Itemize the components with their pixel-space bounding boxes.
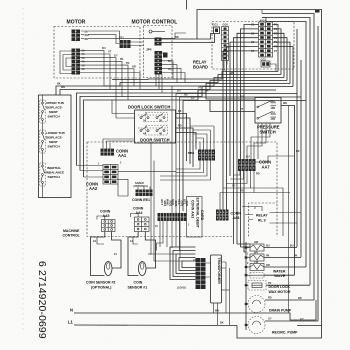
- wire pressure feed lower: [210, 100, 255, 112]
- wire right riser 4: [296, 29, 298, 247]
- wire AA4 top stub: [131, 214, 139, 218]
- wire long vertical to nest: [171, 86, 173, 248]
- lower tub displacement switch symbol: [40, 130, 46, 153]
- connector TB1 (motor control aux): [119, 37, 131, 49]
- coin sensor 1 coin slot symbol: [138, 262, 146, 276]
- wire AA14 left elbow 3: [237, 33, 259, 244]
- wire loads feed elbows: [237, 244, 250, 252]
- connector CONN AA3 pin labels: [160, 199, 189, 207]
- wire pressure out right: [281, 106, 295, 276]
- wire door box right 1: [176, 114, 187, 162]
- wire EE1 stubs up: [138, 187, 150, 190]
- wire pressure bottom drop 1: [247, 123, 262, 159]
- wire RL9 left stubs: [245, 215, 253, 220]
- wire transformer connections: [206, 262, 227, 277]
- wire motor drop 7: [80, 73, 140, 90]
- connector CONN AA7: [238, 159, 256, 171]
- wire JP4 drop 4: [167, 73, 185, 83]
- wire door box left 2: [116, 93, 135, 118]
- wire bus line F: [80, 87, 293, 171]
- wire door box left 1: [112, 100, 135, 114]
- wire right riser 1: [262, 14, 314, 301]
- connector M1 (motor 3-pin): [72, 30, 81, 42]
- connector JP2 (2-pin): [155, 38, 162, 46]
- wire BB0 bottom fan: [160, 161, 211, 181]
- wire AA14 left elbow 5: [230, 42, 259, 176]
- wire AA14 right elbow 2: [273, 29, 282, 75]
- wire bus line E: [77, 84, 291, 166]
- wire GG2 stub: [270, 64, 276, 72]
- wire JP4 drop 1: [167, 61, 173, 80]
- JP4 pin stubs: [162, 53, 167, 73]
- wire nested hook 5: [182, 261, 196, 268]
- upper tub displacement switch symbol: [40, 100, 46, 123]
- wire motor drop 1: [80, 50, 104, 86]
- wire riser top joins: [261, 10, 263, 14]
- wire pressure feed upper: [206, 93, 255, 99]
- door lock switch contacts row 2: [138, 127, 167, 136]
- machine control dashed border: [87, 142, 277, 237]
- wire motor drop 4: [80, 61, 122, 96]
- wire door box right 3: [176, 128, 194, 167]
- connector CONN AA2: [103, 165, 118, 185]
- pressure switch box: [255, 98, 281, 124]
- wire TB1 to motor control: [131, 42, 144, 46]
- motor dashed enclosure: [54, 27, 140, 79]
- drain pump: [246, 296, 314, 313]
- chassis ground circle symbol: [149, 30, 152, 33]
- wire motor drop 5: [80, 65, 128, 100]
- transformer box: [211, 255, 222, 303]
- wire RL9 top jog: [242, 207, 262, 212]
- water valve solenoid 1: [246, 241, 297, 251]
- wire N line: [74, 300, 316, 320]
- wire bus line J: [183, 101, 306, 212]
- wire AA5 top stub: [97, 216, 105, 220]
- wire AA14 left elbow 1: [244, 25, 259, 253]
- recirculation pump: [246, 317, 318, 334]
- water valve solenoid 3: [246, 261, 306, 271]
- wire AA14 left elbow 7: [223, 51, 259, 210]
- door lock wax motor: [246, 281, 310, 291]
- wire GG6 bottom stubs: [224, 61, 227, 69]
- motor winding loops: [60, 51, 72, 74]
- wire JP2 to relay board GG1 a: [162, 38, 198, 39]
- wire L1 outer loop: top run, right side, bottom run: [197, 10, 322, 339]
- pressure switch contacts upper: [257, 100, 276, 110]
- wire JP4 bottom drops: [156, 75, 162, 94]
- wire AA3 left risers: [151, 142, 154, 237]
- wire AA2 out right loop: [118, 179, 128, 196]
- wire RL9 right 1: [270, 212, 302, 214]
- coin sensor 2 circuit loop: [91, 232, 122, 276]
- motor control dashed enclosure: [144, 26, 173, 78]
- wire nested hook 2: [173, 251, 196, 277]
- wire bus line I: [180, 96, 302, 98]
- wire door box right 4: [176, 133, 197, 150]
- wire switch chain links: [42, 95, 44, 198]
- wire recirc return bottom right: [297, 325, 322, 327]
- wire mid verticals to loads: [233, 188, 235, 244]
- door lock switch box: [135, 110, 176, 143]
- wire JP4 drop 3: [167, 69, 181, 80]
- wire motor drop 3: [80, 58, 116, 93]
- wire AA14 left elbow 2: [241, 29, 259, 247]
- wire right riser 5: [300, 60, 302, 257]
- wire bus line H: [176, 93, 297, 95]
- wire M1 pin3 across: [88, 33, 186, 38]
- wire AA14 left elbow 4: [234, 38, 259, 188]
- wire AA7 right loop: [256, 156, 295, 162]
- tub switch assembly box: [39, 95, 72, 198]
- water valve solenoid 2: [246, 252, 301, 262]
- coin sensor 1 circuit loop: [128, 232, 156, 276]
- node CONN AA3 vertical label box: [187, 197, 203, 238]
- wire right riser 6: [317, 26, 319, 321]
- wire AA14 left elbow 6: [227, 47, 259, 210]
- wire right vertical x288: [288, 106, 290, 314]
- coin sensor 2 coin slot symbol: [104, 262, 112, 276]
- wire bus line A: [112, 72, 278, 80]
- inertial unbalance switch symbol: [40, 163, 46, 186]
- wire bus line G: [84, 90, 277, 177]
- wire door box right 2: [176, 118, 191, 164]
- connector XF1 (transformer primary stack): [196, 258, 206, 289]
- water valve solenoid 4: [246, 273, 295, 279]
- wire motor drop 6: [80, 69, 134, 86]
- wire right riser 3: [266, 22, 306, 268]
- wire motor drop 2: [80, 54, 110, 90]
- connector CONN AA6: [216, 210, 229, 221]
- pressure switch contacts lower: [257, 111, 276, 121]
- wire top feed stub off page: [186, 0, 188, 10]
- wire AA14 right elbow 3: [273, 33, 285, 77]
- relay board dashed enclosure: [212, 22, 294, 70]
- wire AA7 lower right links: [251, 188, 291, 236]
- node OO1 top right tick: [315, 10, 320, 13]
- wire AA7 bottom fan: [220, 171, 254, 210]
- connector CONN AA1: [101, 149, 115, 156]
- connector JP4 aux cell: [163, 53, 168, 58]
- wire right riser 2: [262, 18, 310, 286]
- wire JP2 to relay board GG1 b: [162, 34, 215, 43]
- relay RL9 dashed compartment: [249, 203, 278, 237]
- connector JP4: [155, 51, 163, 75]
- wire bus line D: [60, 81, 287, 96]
- wire RL9 right 2: [270, 222, 298, 224]
- pin labels M1: [81, 31, 84, 38]
- connector CONN EE1: [136, 190, 153, 197]
- wire AA14 right elbow 4: [273, 38, 288, 81]
- wire nested hook 4: [179, 258, 196, 271]
- wire bus line C: [56, 78, 284, 96]
- wire BB0 top feeds: [200, 126, 214, 150]
- wire bus line B: [104, 75, 281, 87]
- wire AA2 out right: [118, 171, 176, 173]
- wire nested hook 1: [170, 247, 196, 280]
- door lock switch module dashed boxes: [146, 113, 168, 122]
- wire AA14 right elbow 6: [273, 47, 294, 87]
- wire elbow feed from AA3: [151, 94, 182, 262]
- wire door box bottom drops to AA1: [103, 143, 110, 149]
- connector CONN AA3: [158, 213, 187, 221]
- wire nested hook 3: [176, 254, 196, 274]
- door lock switch contacts row 1: [138, 114, 167, 123]
- wire color labels scatter: [57, 69, 304, 325]
- wire AA14 right elbow 1: [273, 25, 279, 72]
- wire JP4 drop 2: [167, 65, 177, 83]
- wire pressure bottom drop 1b: [254, 123, 266, 159]
- wire L1 line: [74, 324, 237, 327]
- left margin dashed fold line: [22, 8, 24, 333]
- wire M1 to TB1: [88, 31, 120, 40]
- wire AA2 pin feeds: [77, 166, 104, 178]
- loads left rail: [245, 242, 247, 330]
- wire AA14 right elbow 5: [273, 42, 291, 83]
- wire transformer to N L1: [214, 262, 230, 325]
- connector M2 (motor 7-pin): [72, 49, 81, 75]
- wire pressure bottom drop 2: [251, 123, 270, 159]
